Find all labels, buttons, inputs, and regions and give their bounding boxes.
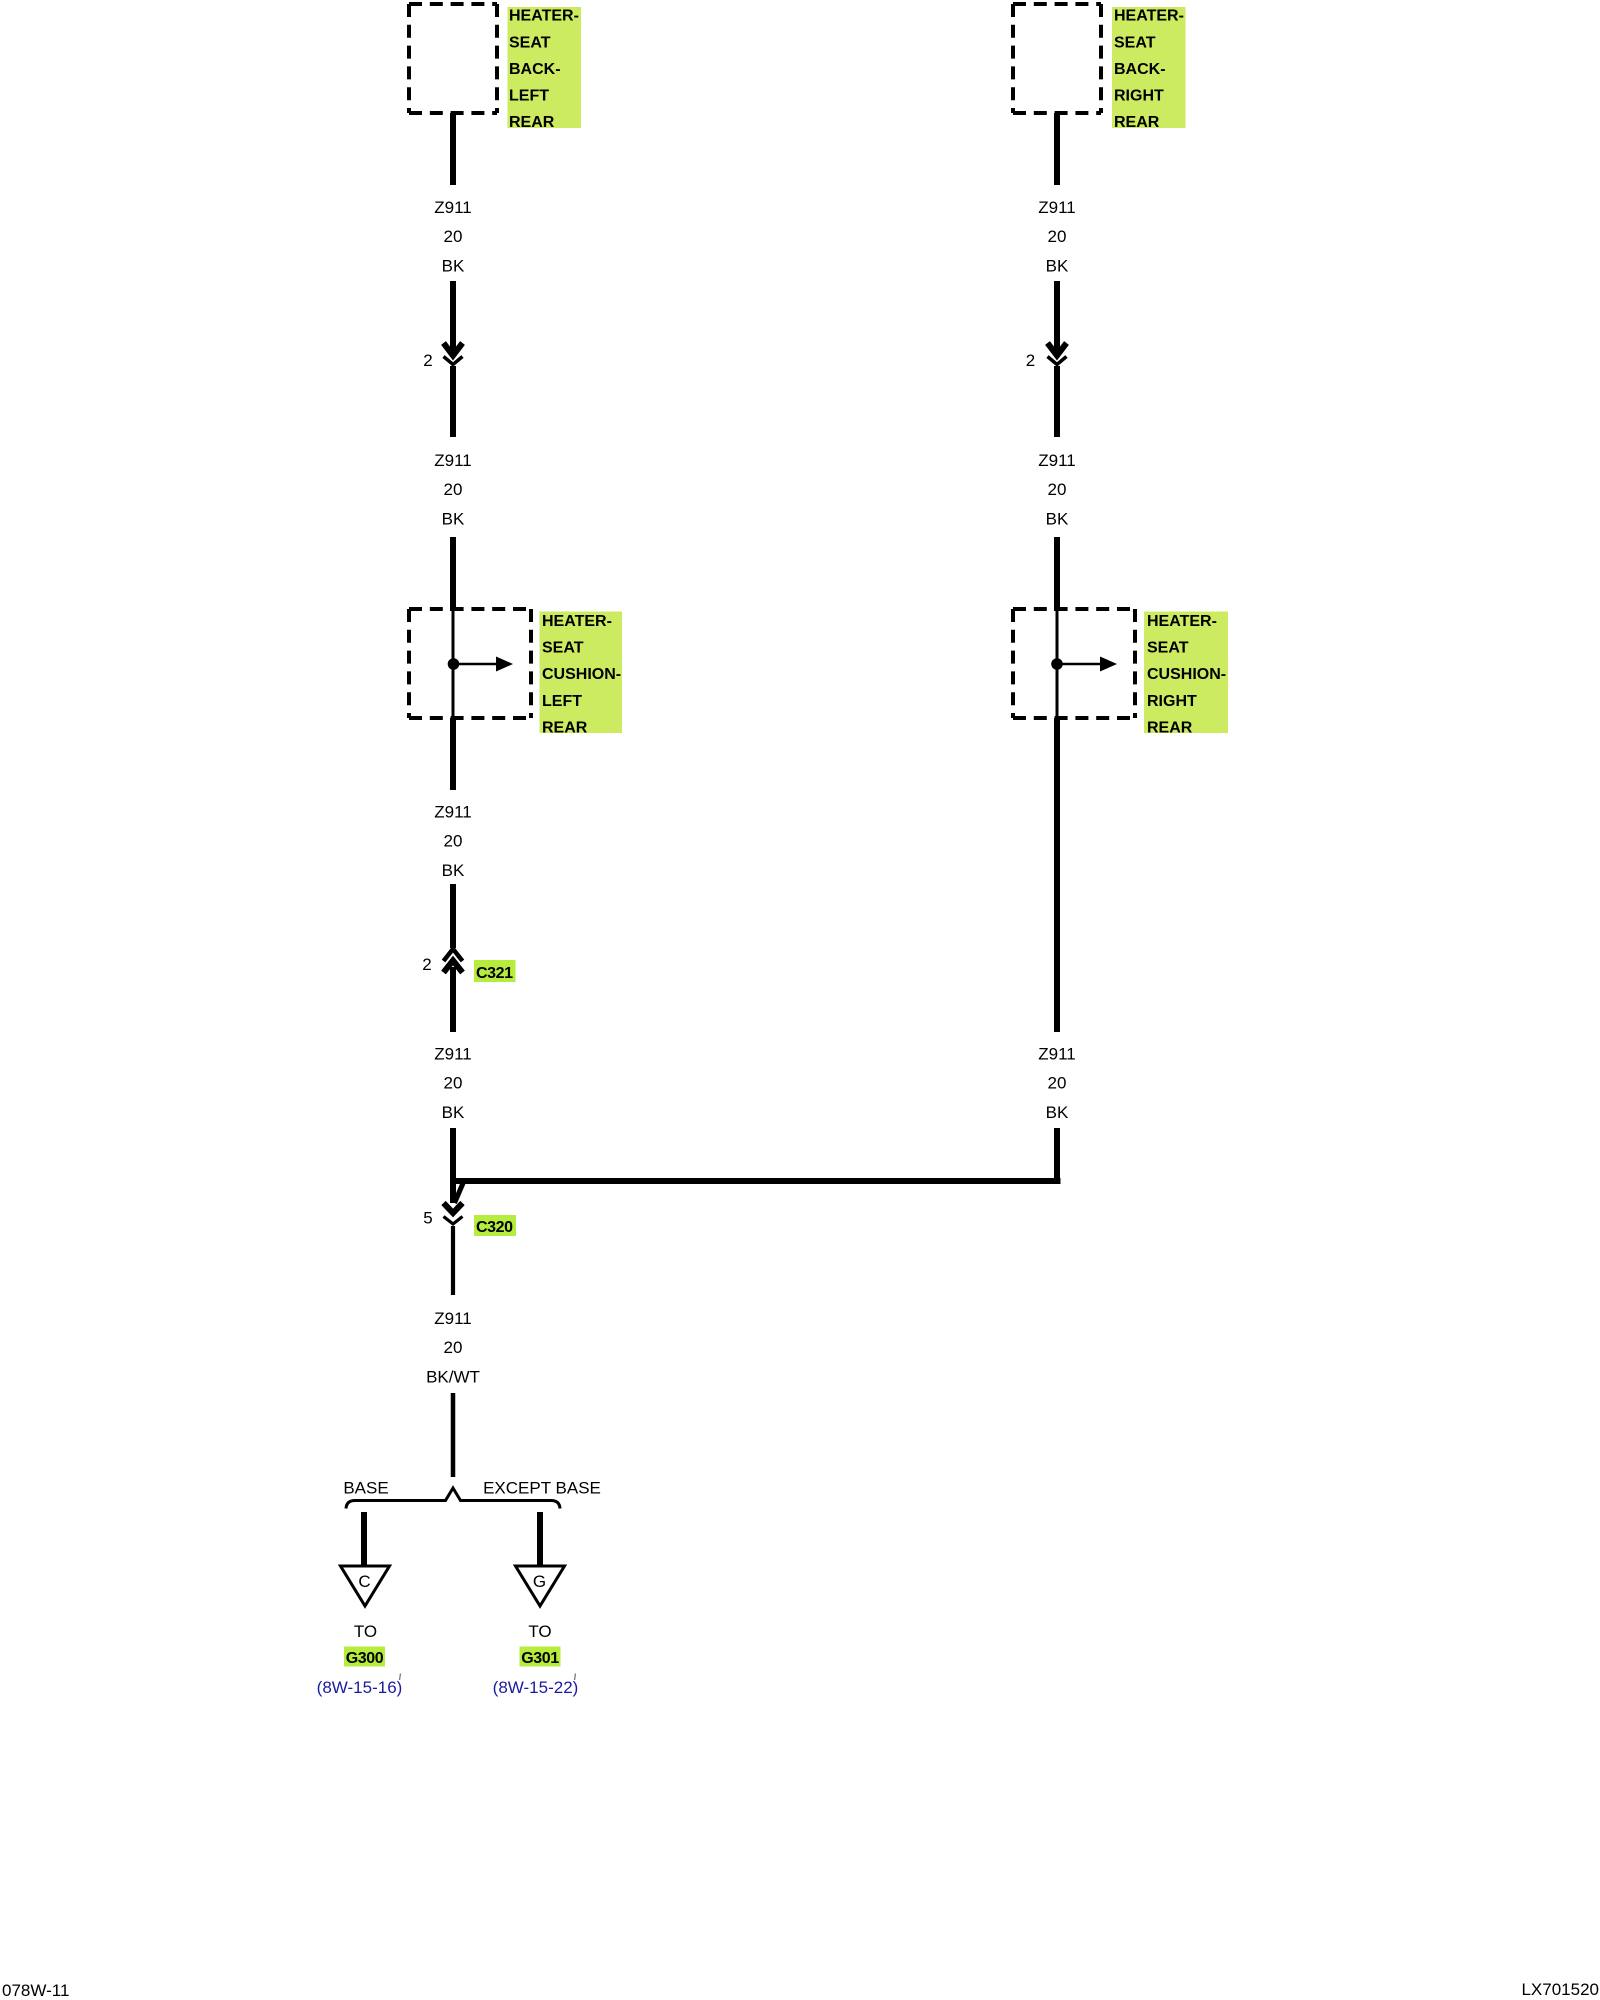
svg-text:BK: BK [442,509,465,528]
svg-text:REAR: REAR [1147,719,1193,736]
svg-text:RIGHT: RIGHT [1147,693,1197,710]
svg-text:REAR: REAR [1114,114,1160,131]
svg-text:LEFT: LEFT [509,88,549,105]
svg-text:20: 20 [1048,227,1067,246]
svg-text:SEAT: SEAT [1114,34,1156,51]
svg-text:HEATER-: HEATER- [1114,8,1184,25]
svg-text:BK: BK [1046,256,1069,275]
svg-text:EXCEPT BASE: EXCEPT BASE [483,1479,601,1498]
svg-text:20: 20 [444,1074,463,1093]
svg-text:SEAT: SEAT [509,34,551,51]
svg-text:Z911: Z911 [1038,198,1076,217]
svg-text:C320: C320 [476,1219,513,1236]
svg-text:Z911: Z911 [434,1045,472,1064]
svg-text:Z911: Z911 [1038,451,1076,470]
svg-text:LEFT: LEFT [542,693,582,710]
svg-text:BACK-: BACK- [509,61,561,78]
svg-text:HEATER-: HEATER- [1147,613,1217,630]
svg-text:2: 2 [422,955,431,974]
svg-text:BK: BK [442,1103,465,1122]
svg-text:TO: TO [354,1622,377,1641]
svg-text:Z911: Z911 [434,803,472,822]
svg-text:Z911: Z911 [1038,1045,1076,1064]
svg-text:Z911: Z911 [434,198,472,217]
svg-text:SEAT: SEAT [1147,639,1189,656]
svg-text:BK: BK [442,861,465,880]
svg-text:REAR: REAR [509,114,555,131]
svg-text:CUSHION-: CUSHION- [542,666,621,683]
svg-text:BK: BK [442,256,465,275]
svg-text:Z911: Z911 [434,1309,472,1328]
svg-text:G301: G301 [521,1650,559,1667]
svg-text:C: C [358,1572,370,1591]
svg-text:20: 20 [1048,480,1067,499]
svg-text:LX701520: LX701520 [1521,1980,1599,1999]
svg-text:BK/WT: BK/WT [426,1367,480,1386]
svg-text:20: 20 [444,480,463,499]
svg-text:5: 5 [423,1209,432,1228]
svg-text:2: 2 [423,351,432,370]
svg-text:BACK-: BACK- [1114,61,1166,78]
svg-text:(8W-15-16): (8W-15-16) [317,1678,403,1697]
svg-text:BK: BK [1046,509,1069,528]
svg-text:20: 20 [444,1338,463,1357]
svg-text:CUSHION-: CUSHION- [1147,666,1226,683]
svg-text:20: 20 [444,227,463,246]
svg-text:RIGHT: RIGHT [1114,88,1164,105]
svg-text:HEATER-: HEATER- [509,8,579,25]
svg-text:Z911: Z911 [434,451,472,470]
svg-text:REAR: REAR [542,719,588,736]
svg-text:SEAT: SEAT [542,639,584,656]
svg-text:078W-11: 078W-11 [2,1981,69,2000]
svg-text:BASE: BASE [343,1479,388,1498]
svg-text:HEATER-: HEATER- [542,613,612,630]
svg-text:20: 20 [1048,1074,1067,1093]
svg-text:(8W-15-22): (8W-15-22) [493,1678,579,1697]
svg-text:G300: G300 [346,1650,384,1667]
svg-text:G: G [533,1572,546,1591]
svg-text:20: 20 [444,832,463,851]
svg-text:C321: C321 [476,965,513,982]
svg-text:TO: TO [528,1622,551,1641]
svg-text:BK: BK [1046,1103,1069,1122]
svg-text:2: 2 [1026,351,1035,370]
